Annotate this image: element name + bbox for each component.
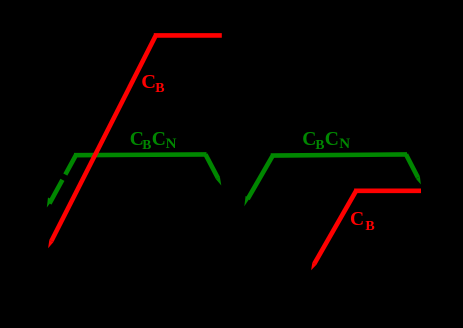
curve CB left panel (red trace): [51, 35, 221, 241]
wire fall left green: [206, 154, 218, 178]
node taper tip right red rise: [311, 263, 316, 271]
node taper tip right green rise: [244, 196, 249, 206]
wire plateau left red: [154, 33, 222, 38]
wire fall right green: [406, 154, 418, 177]
label CB left (red): [141, 72, 156, 93]
node taper tip left green fall: [216, 177, 221, 186]
node taper tip right green fall: [416, 177, 421, 185]
wire dashed rise left green: [50, 155, 77, 204]
wire plateau right red: [354, 189, 421, 194]
node arrow tip left green: [47, 198, 53, 208]
node taper tip left red rise: [48, 240, 53, 248]
wire rise left red: [51, 35, 155, 241]
wire rise right red: [314, 191, 356, 264]
wire rise right green: [248, 156, 273, 199]
curve CB right panel (red trace): [314, 191, 421, 264]
curve CBCN left panel (green trace, dashed rise with arrow): [50, 154, 218, 203]
wire plateau right green: [271, 154, 407, 155]
label CB right (red): [350, 210, 364, 230]
label CBCN right (green): [302, 130, 316, 150]
label CBCN left (green): [130, 130, 144, 150]
wire plateau left green: [74, 152, 207, 157]
curve CBCN right panel (green trace): [248, 154, 418, 199]
